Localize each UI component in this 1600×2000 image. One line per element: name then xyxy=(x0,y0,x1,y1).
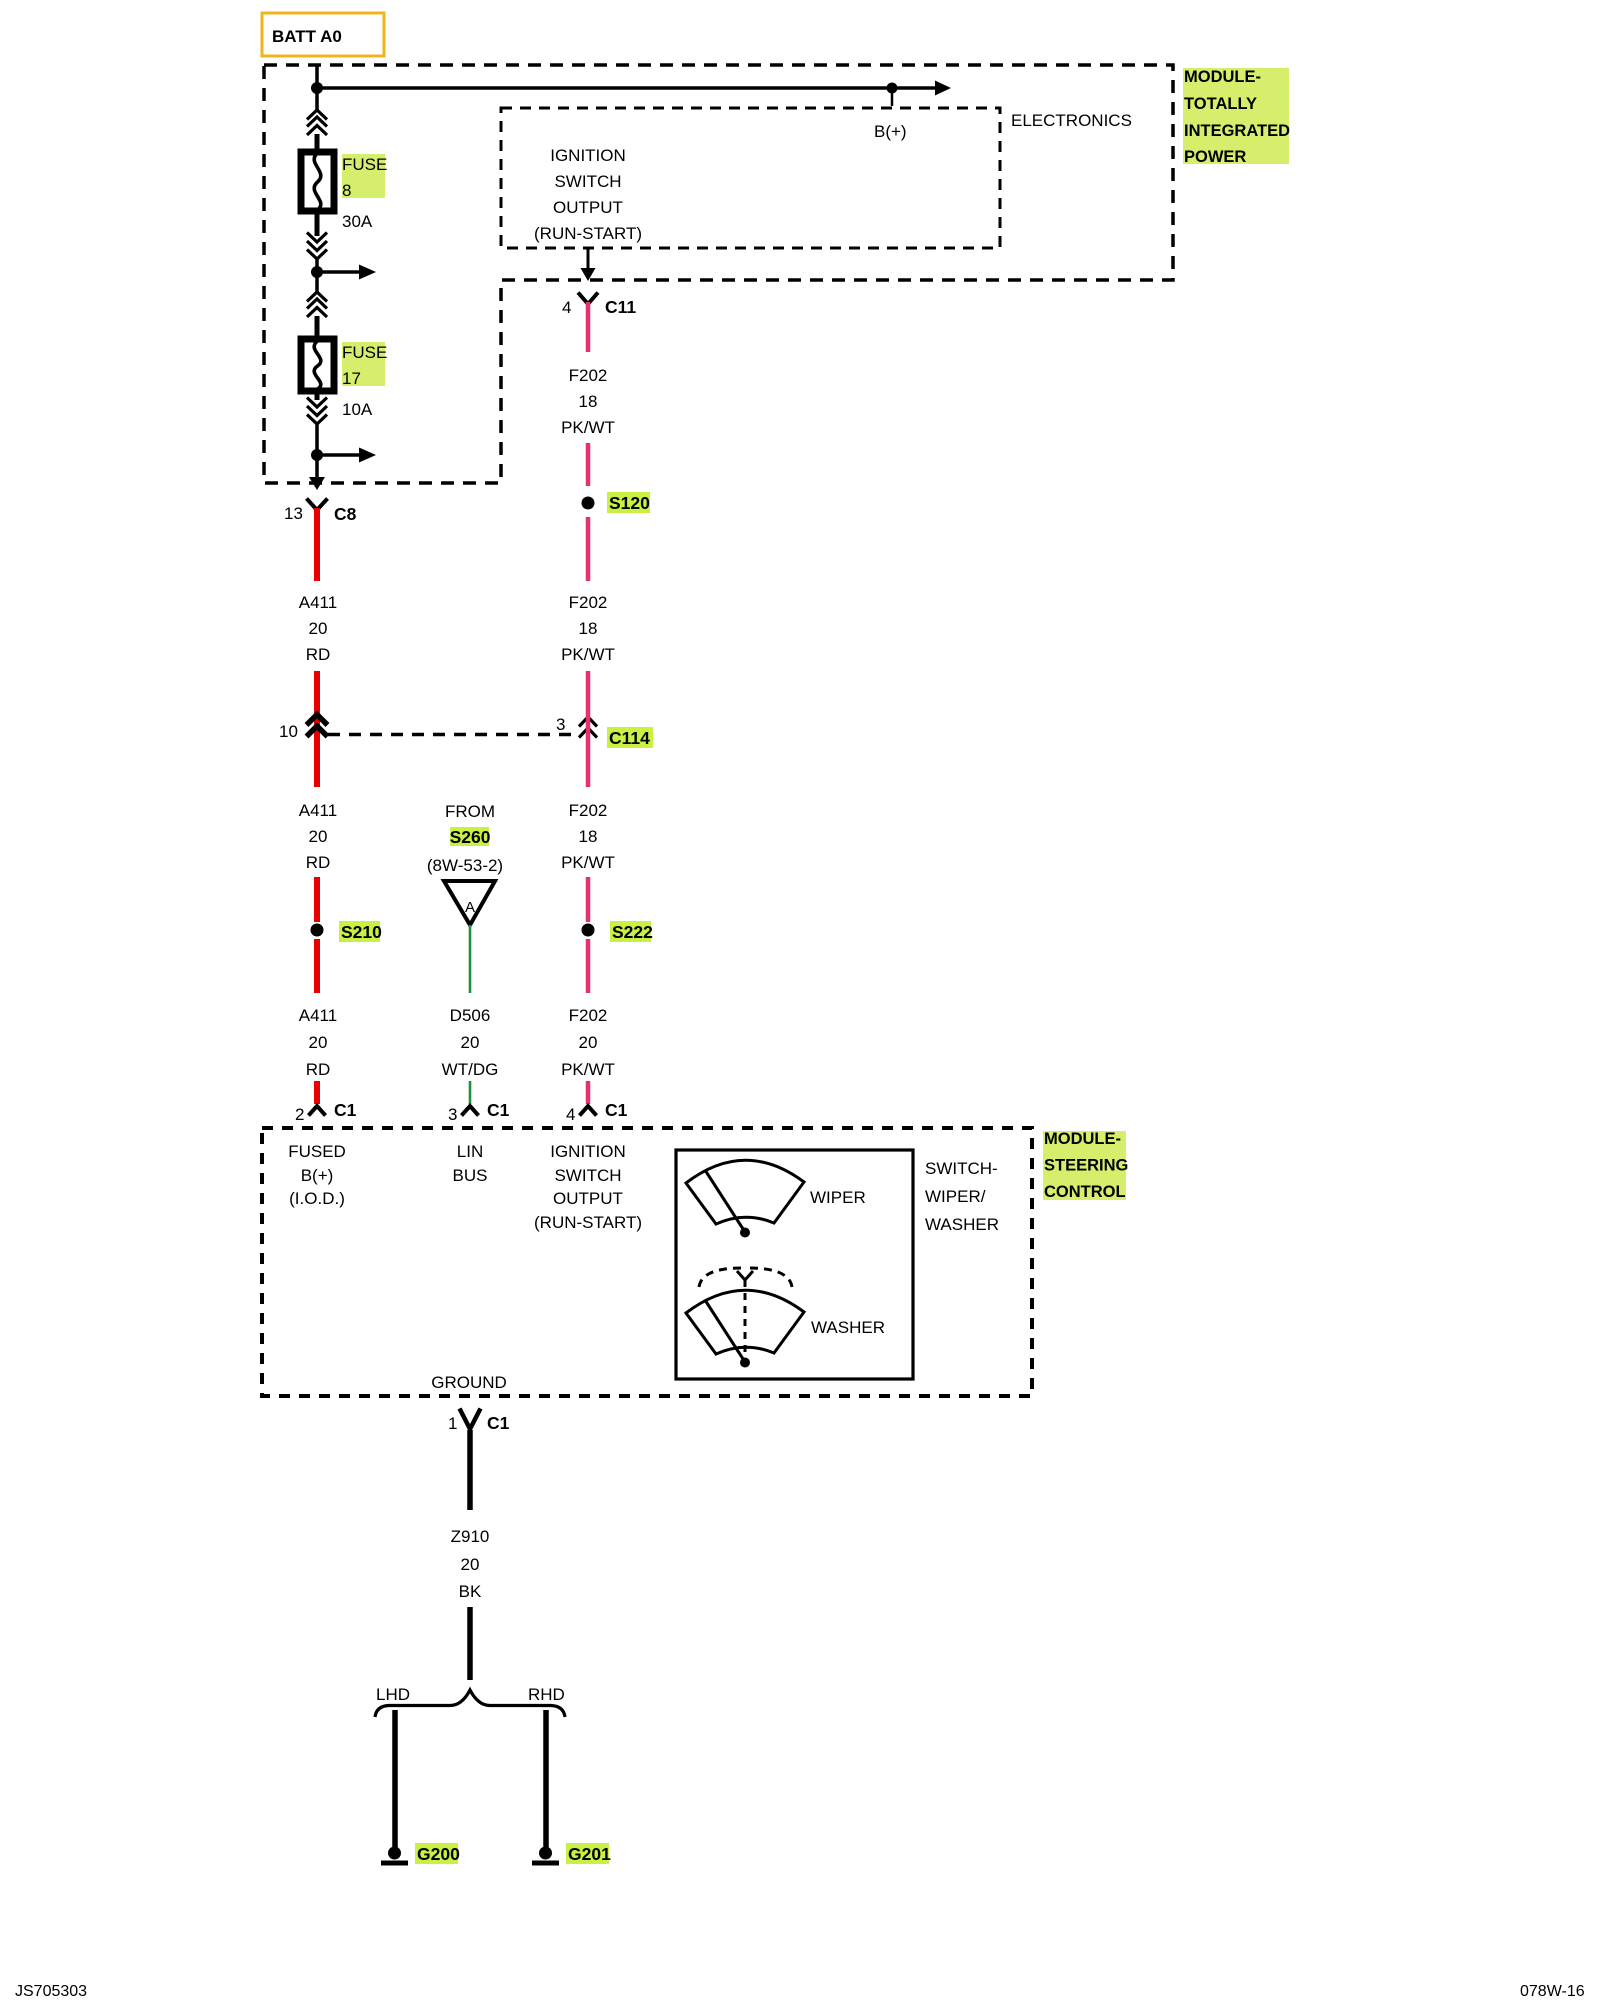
svg-text:4: 4 xyxy=(566,1105,575,1124)
svg-text:C1: C1 xyxy=(334,1100,357,1120)
svg-text:RHD: RHD xyxy=(528,1685,565,1704)
wire F202 pink segment 3 xyxy=(586,517,591,581)
svg-text:B(+): B(+) xyxy=(874,122,907,141)
wire Z910 black segment 2 xyxy=(467,1607,473,1680)
svg-text:CONTROL: CONTROL xyxy=(1044,1183,1126,1201)
svg-text:18: 18 xyxy=(579,619,598,638)
svg-text:10: 10 xyxy=(279,722,298,741)
svg-text:IGNITION: IGNITION xyxy=(550,146,626,165)
wire A411 red segment 4 xyxy=(314,939,320,993)
svg-text:WASHER: WASHER xyxy=(925,1215,999,1234)
svg-text:Z910: Z910 xyxy=(451,1527,490,1546)
wire label F202 20 PK/WT block 4 xyxy=(561,1006,615,1079)
connector C1 pin 1 (female Y) xyxy=(460,1409,481,1430)
washer fan symbol xyxy=(686,1290,804,1362)
wire into fuse 8 xyxy=(315,134,320,153)
splice S210 xyxy=(311,921,383,942)
junction dot fuse 8 output xyxy=(311,266,323,278)
svg-text:(RUN-START): (RUN-START) xyxy=(534,224,642,243)
washer pivot dot xyxy=(740,1358,750,1368)
svg-text:FUSE: FUSE xyxy=(342,343,387,362)
washer spray dashed arcs xyxy=(699,1268,792,1287)
arrowhead B(+) xyxy=(935,81,951,96)
svg-text:LIN: LIN xyxy=(457,1142,483,1161)
wire A411 red segment 3 xyxy=(314,877,320,922)
fuse F8 xyxy=(301,152,334,211)
svg-text:POWER: POWER xyxy=(1184,148,1246,166)
wire label A411 20 RD block 3 xyxy=(299,1006,337,1079)
wire label F202 18 PK/WT block 3 xyxy=(561,801,615,872)
wire below fuse 8 xyxy=(315,212,320,236)
svg-text:F202: F202 xyxy=(569,801,608,820)
svg-text:3: 3 xyxy=(448,1105,457,1124)
svg-text:C8: C8 xyxy=(334,504,357,524)
wire into fuse 17 xyxy=(315,316,320,340)
washer center Y mark xyxy=(737,1271,753,1280)
arrowhead down at TIPM boundary xyxy=(309,477,325,490)
wire label F202 18 PK/WT block 2 xyxy=(561,593,615,664)
svg-text:SWITCH: SWITCH xyxy=(554,1166,621,1185)
wire ignition switch output arrow xyxy=(587,248,590,270)
junction dot fuse 17 output xyxy=(311,449,323,461)
washer center dashed line xyxy=(744,1280,747,1360)
svg-text:PK/WT: PK/WT xyxy=(561,1060,615,1079)
svg-text:17: 17 xyxy=(342,369,361,388)
switch-wiper/washer solid box xyxy=(676,1150,913,1379)
svg-text:BK: BK xyxy=(459,1582,482,1601)
svg-text:LHD: LHD xyxy=(376,1685,410,1704)
svg-text:2: 2 xyxy=(295,1105,304,1124)
wire D506 green segment 2 xyxy=(469,1081,472,1104)
svg-text:B(+): B(+) xyxy=(301,1166,334,1185)
FROM S260 reference label xyxy=(427,802,503,875)
svg-text:(I.O.D.): (I.O.D.) xyxy=(289,1189,345,1208)
svg-text:F202: F202 xyxy=(569,366,608,385)
svg-text:WT/DG: WT/DG xyxy=(442,1060,499,1079)
svg-text:C1: C1 xyxy=(487,1413,510,1433)
fuse F17 xyxy=(301,339,334,391)
connector C8 pin 13 (female Y) xyxy=(307,499,328,511)
pin label LIN BUS xyxy=(453,1142,488,1185)
svg-text:F202: F202 xyxy=(569,593,608,612)
wire to junction 1 xyxy=(315,259,319,278)
svg-text:JS705303: JS705303 xyxy=(15,1983,87,2000)
svg-text:10A: 10A xyxy=(342,400,373,419)
svg-text:C1: C1 xyxy=(605,1100,628,1120)
wire F202 pink segment 1 xyxy=(586,302,591,352)
module TIPM dashed boundary xyxy=(264,65,1173,483)
ignition switch output box label xyxy=(534,146,642,243)
svg-text:PK/WT: PK/WT xyxy=(561,853,615,872)
wire F202 pink segment 5 xyxy=(586,877,591,922)
module steering control dashed boundary xyxy=(262,1128,1032,1396)
wire exiting TIPM module xyxy=(315,455,319,479)
svg-text:20: 20 xyxy=(309,619,328,638)
svg-text:PK/WT: PK/WT xyxy=(561,645,615,664)
connector name C114 xyxy=(607,727,653,748)
svg-text:IGNITION: IGNITION xyxy=(550,1142,626,1161)
splice S120 xyxy=(582,492,651,513)
wire B(+) horizontal xyxy=(317,86,936,90)
svg-text:18: 18 xyxy=(579,827,598,846)
wire A411 red segment 1 xyxy=(314,508,320,581)
arrowhead ignition switch output xyxy=(581,268,596,281)
svg-text:OUTPUT: OUTPUT xyxy=(553,1189,623,1208)
svg-text:C114: C114 xyxy=(609,728,650,748)
svg-text:FUSED: FUSED xyxy=(288,1142,346,1161)
svg-text:BUS: BUS xyxy=(453,1166,488,1185)
svg-text:SWITCH-: SWITCH- xyxy=(925,1159,998,1178)
connector C114 pin 3 chevrons xyxy=(579,717,597,738)
connector chevrons below fuse 8 xyxy=(307,233,327,260)
svg-text:STEERING: STEERING xyxy=(1044,1157,1128,1175)
svg-text:4: 4 xyxy=(562,298,571,317)
svg-text:GROUND: GROUND xyxy=(431,1373,507,1392)
pin label FUSED B(+) (I.O.D.) xyxy=(288,1142,346,1208)
svg-text:D506: D506 xyxy=(450,1006,491,1025)
splice S222 xyxy=(582,921,654,942)
svg-text:A: A xyxy=(465,899,475,916)
wire F202 pink segment 6 xyxy=(586,939,591,993)
junction dot electronics stub xyxy=(887,83,898,94)
svg-text:20: 20 xyxy=(579,1033,598,1052)
MODULE-TOTALLY INTEGRATED POWER label xyxy=(1183,68,1290,166)
SWITCH-WIPER/WASHER label xyxy=(925,1159,999,1234)
wire label A411 20 RD block 1 xyxy=(299,593,337,664)
svg-text:(RUN-START): (RUN-START) xyxy=(534,1213,642,1232)
wire A411 red segment 5 xyxy=(314,1081,320,1104)
wiper fan symbol xyxy=(686,1160,804,1237)
wire label F202 18 PK/WT block 1 xyxy=(561,366,615,437)
svg-text:OUTPUT: OUTPUT xyxy=(553,198,623,217)
connector C1 pin 3 (male) xyxy=(462,1106,479,1116)
svg-text:RD: RD xyxy=(306,645,331,664)
feed arrow right 1 xyxy=(317,265,376,280)
wire battery feed vertical xyxy=(315,65,319,110)
C114 in-line connector dashed line xyxy=(328,733,578,737)
svg-text:20: 20 xyxy=(309,1033,328,1052)
svg-text:S120: S120 xyxy=(609,493,650,513)
ground G201 label xyxy=(566,1843,611,1864)
wire label A411 20 RD block 2 xyxy=(299,801,337,872)
wire F202 pink segment 4 xyxy=(586,671,591,787)
wire electronics stub xyxy=(891,88,894,106)
BATT A0 power feed tag box xyxy=(262,13,384,56)
connector C1 pin 4 (male) xyxy=(580,1106,597,1116)
connector C11 pin 4 (female Y) xyxy=(578,293,598,305)
svg-text:A411: A411 xyxy=(299,1006,337,1025)
wire label D506 20 WT/DG xyxy=(442,1006,499,1079)
wire F202 pink segment 2 xyxy=(586,443,591,486)
svg-text:(8W-53-2): (8W-53-2) xyxy=(427,856,503,875)
svg-text:S222: S222 xyxy=(612,922,653,942)
svg-text:30A: 30A xyxy=(342,212,373,231)
wire D506 green segment 1 xyxy=(469,925,472,993)
ground G200 symbol xyxy=(381,1847,408,1866)
junction dot B(+) feed xyxy=(311,82,323,94)
svg-text:FROM: FROM xyxy=(445,802,495,821)
FUSE 17 label xyxy=(342,342,387,388)
svg-text:WIPER/: WIPER/ xyxy=(925,1187,986,1206)
connector chevrons above fuse 17 xyxy=(307,292,327,317)
svg-text:TOTALLY: TOTALLY xyxy=(1184,95,1257,113)
svg-text:SWITCH: SWITCH xyxy=(554,172,621,191)
svg-text:MODULE-: MODULE- xyxy=(1044,1130,1121,1148)
wire ground RHD xyxy=(543,1710,549,1848)
svg-text:1: 1 xyxy=(448,1414,457,1433)
feed arrow right 2 xyxy=(317,448,376,463)
svg-text:G201: G201 xyxy=(568,1844,611,1864)
svg-text:20: 20 xyxy=(461,1555,480,1574)
svg-text:20: 20 xyxy=(309,827,328,846)
FUSE 8 label xyxy=(342,154,387,200)
svg-text:C11: C11 xyxy=(605,297,636,317)
svg-text:RD: RD xyxy=(306,853,331,872)
svg-text:S260: S260 xyxy=(450,827,491,847)
wire to junction 2 xyxy=(315,424,319,461)
LHD/RHD split brace xyxy=(375,1690,565,1717)
svg-text:RD: RD xyxy=(306,1060,331,1079)
connector chevrons above fuse 8 xyxy=(307,110,327,135)
svg-text:BATT A0: BATT A0 xyxy=(272,27,342,46)
wire below junction 1 xyxy=(315,278,319,293)
ignition switch output dashed box xyxy=(501,108,1000,248)
svg-text:3: 3 xyxy=(556,715,565,734)
svg-text:13: 13 xyxy=(284,504,303,523)
svg-text:20: 20 xyxy=(461,1033,480,1052)
svg-text:F202: F202 xyxy=(569,1006,608,1025)
svg-text:18: 18 xyxy=(579,392,598,411)
off-page reference triangle A xyxy=(444,881,495,925)
ground G200 label xyxy=(415,1843,460,1864)
ground G201 symbol xyxy=(532,1847,559,1866)
wire ground LHD xyxy=(392,1710,398,1848)
MODULE-STEERING CONTROL label xyxy=(1043,1130,1128,1201)
svg-text:078W-16: 078W-16 xyxy=(1520,1983,1585,2000)
svg-text:FUSE: FUSE xyxy=(342,155,387,174)
connector C114 pin 10 chevrons xyxy=(307,715,328,737)
wire below fuse 17 xyxy=(315,392,320,400)
svg-text:G200: G200 xyxy=(417,1844,460,1864)
svg-text:C1: C1 xyxy=(487,1100,510,1120)
pin label IGNITION SWITCH OUTPUT (RUN-START) xyxy=(534,1142,642,1232)
svg-text:A411: A411 xyxy=(299,801,337,820)
wire Z910 black segment 1 xyxy=(467,1430,473,1510)
wire F202 pink segment 7 xyxy=(586,1081,591,1104)
svg-text:8: 8 xyxy=(342,181,351,200)
svg-text:MODULE-: MODULE- xyxy=(1184,68,1261,86)
svg-text:A411: A411 xyxy=(299,593,337,612)
svg-text:PK/WT: PK/WT xyxy=(561,418,615,437)
wire A411 red segment 2 xyxy=(314,671,320,787)
svg-text:INTEGRATED: INTEGRATED xyxy=(1184,122,1290,140)
connector chevrons below fuse 17 xyxy=(307,398,327,425)
svg-text:WASHER: WASHER xyxy=(811,1318,885,1337)
svg-text:ELECTRONICS: ELECTRONICS xyxy=(1011,111,1132,130)
svg-text:WIPER: WIPER xyxy=(810,1188,866,1207)
connector C1 pin 2 (male) xyxy=(309,1106,326,1116)
svg-text:S210: S210 xyxy=(341,922,382,942)
wire label Z910 20 BK xyxy=(451,1527,490,1601)
